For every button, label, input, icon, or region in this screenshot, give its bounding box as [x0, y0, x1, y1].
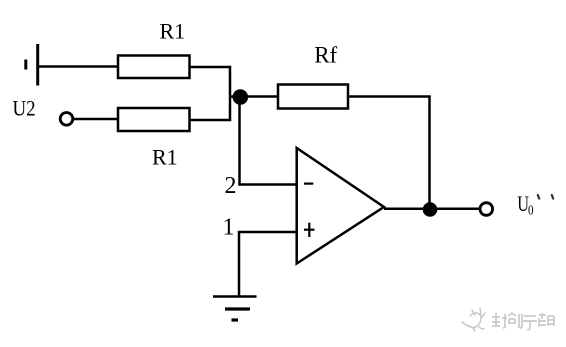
svg-text:2: 2 — [225, 173, 237, 199]
svg-text:0: 0 — [528, 202, 534, 217]
svg-text:U2: U2 — [13, 97, 36, 121]
svg-text:U: U — [517, 193, 529, 217]
svg-text:1: 1 — [223, 215, 235, 241]
svg-text:Rf: Rf — [314, 43, 337, 68]
svg-text:R1: R1 — [152, 145, 178, 170]
svg-text:R1: R1 — [160, 19, 186, 44]
